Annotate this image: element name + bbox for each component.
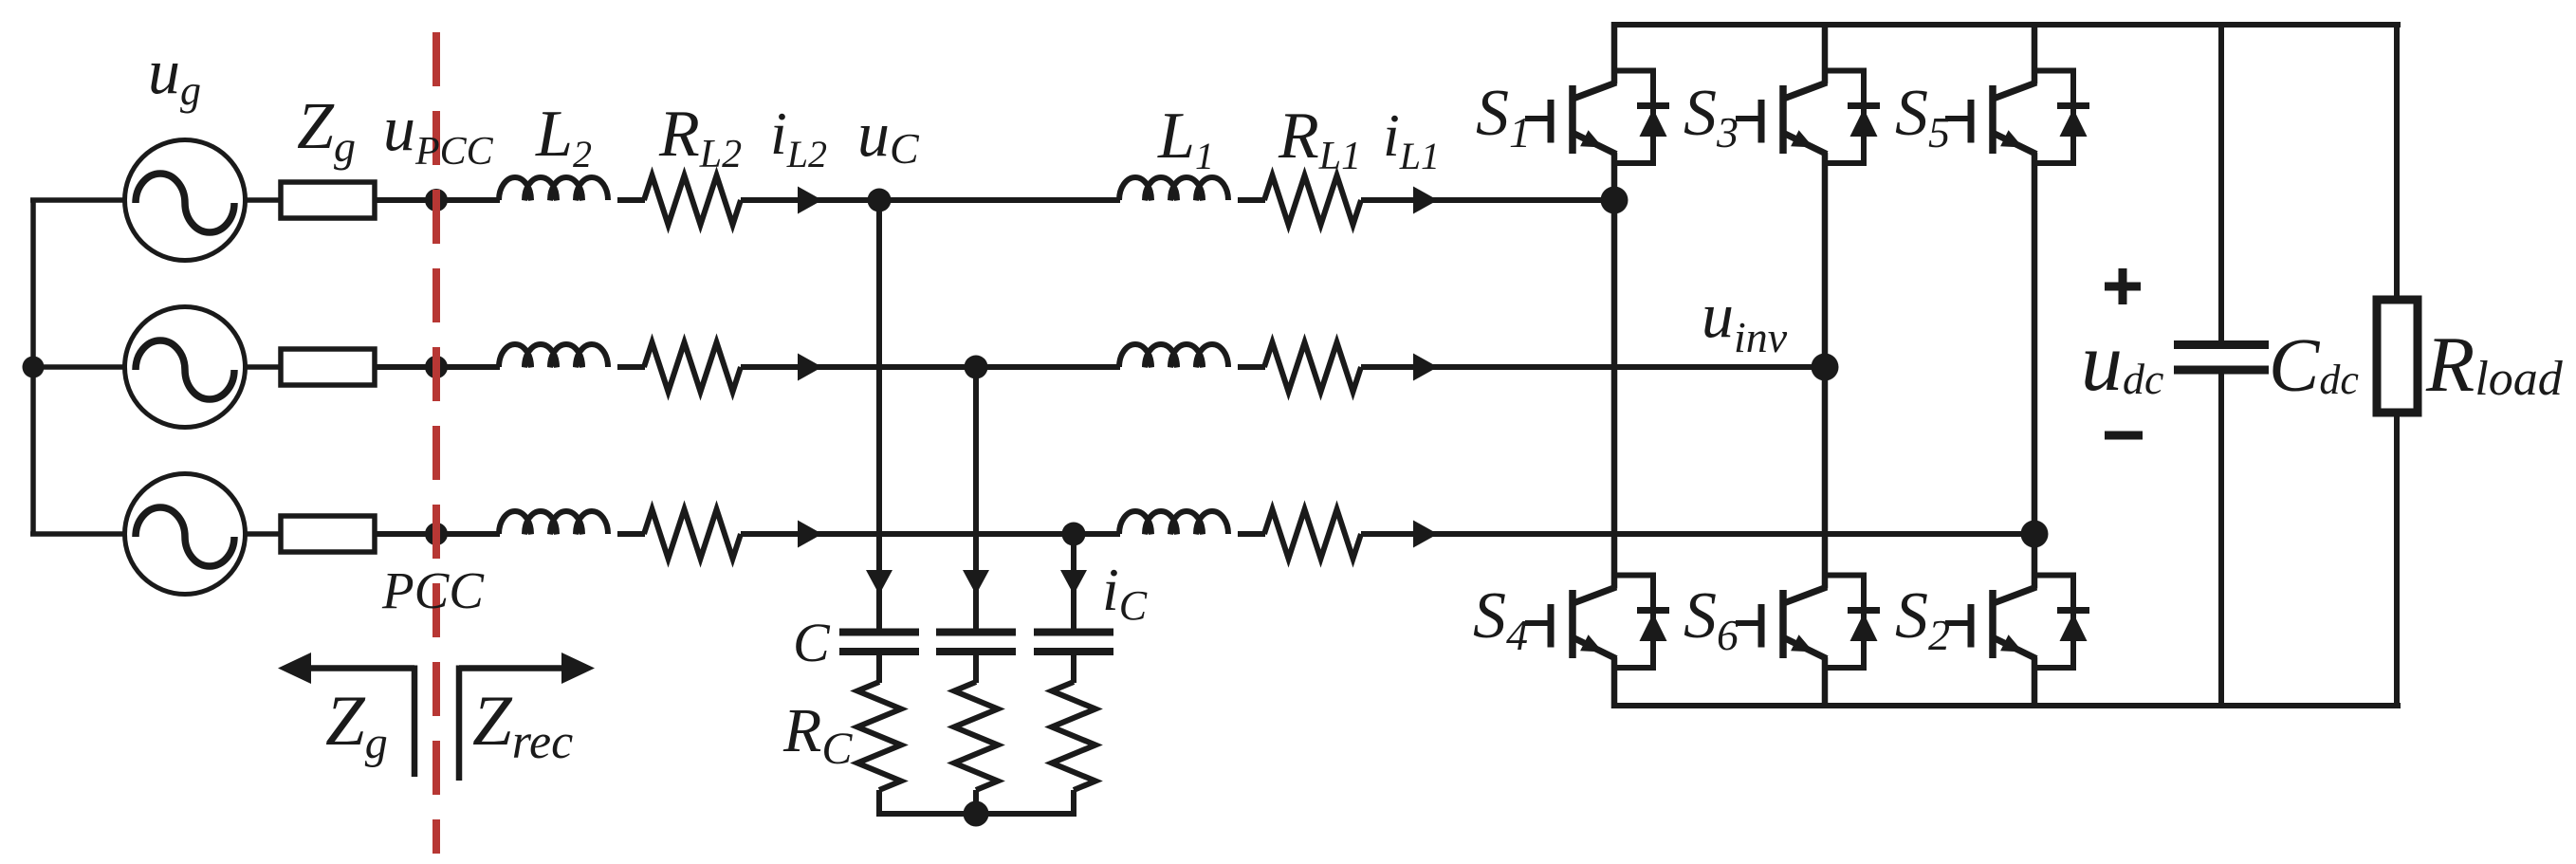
wire L2 to RL2 phase a [617, 197, 645, 203]
wire RL1 to bridge phase c [1361, 531, 2034, 537]
wire RL2 to uC phase a [741, 197, 881, 203]
wire RL2 to node phase c [741, 531, 1076, 537]
wire L1 to RL1 phase b [1238, 364, 1265, 370]
wire L1 to RL1 phase c [1238, 531, 1265, 537]
node phase c filter tap [1062, 523, 1086, 546]
arrow iC phase c [1060, 570, 1087, 595]
resistor RL1 phase a [1264, 175, 1361, 225]
impedance Zg box phase c [281, 516, 375, 552]
capacitor C top plate phase c [1034, 629, 1113, 636]
wire L2 to RL2 phase b [617, 364, 645, 370]
resistor RL2 phase b [644, 342, 741, 392]
node phase c to leg 3 [2021, 521, 2049, 548]
capacitor C top plate phase b [936, 629, 1016, 636]
ac source ug phase b [125, 307, 246, 428]
arrow Zrec direction [459, 653, 595, 684]
resistor RL2 phase a [644, 175, 741, 225]
wire inverter leg 1 upper [1611, 22, 1618, 84]
resistor RC phase c [1052, 682, 1095, 790]
inductor L1 phase b [1119, 344, 1228, 367]
wire RC to star rail phase c [1071, 790, 1076, 817]
capacitor C bottom plate phase b [936, 648, 1016, 655]
wire RC to star rail phase b [973, 790, 979, 817]
wire capacitor to RC phase c [1071, 652, 1076, 683]
node uinv leg 2 [1812, 354, 1839, 381]
arrow iL2 phase c [798, 521, 822, 548]
wire capacitor branch down phase c [1071, 534, 1076, 629]
ac source ug phase c [125, 474, 246, 595]
capacitor C top plate phase a [839, 629, 919, 636]
capacitor Cdc bottom plate [2174, 366, 2269, 375]
wire capacitor branch down phase b [973, 367, 979, 629]
wire source b to Zg [245, 364, 281, 370]
wire rail to source c [30, 531, 125, 537]
arrow iL2 phase b [798, 354, 822, 381]
node PCC phase b [425, 356, 448, 378]
wire inverter leg 2 upper [1822, 22, 1829, 84]
resistor RL1 phase b [1264, 342, 1361, 392]
wire dc bottom bus [1611, 703, 2401, 708]
wire inverter leg 1 lower [1611, 657, 1618, 708]
transistor S2 [1945, 573, 2089, 671]
wire rail to source a [30, 197, 125, 203]
resistor RC phase b [954, 682, 998, 790]
arrow iL1 phase c [1413, 521, 1438, 548]
inductor L1 phase a [1119, 177, 1228, 200]
wire capacitor branch down phase a [876, 200, 882, 629]
wire node to L1 phase b [976, 364, 1120, 370]
arrow iL2 phase a [798, 187, 822, 214]
wire inverter leg 3 upper [2032, 22, 2038, 84]
wire inverter leg 3 lower [2032, 657, 2038, 708]
wire source c to Zg [245, 531, 281, 537]
wire Cdc branch upper [2218, 25, 2224, 345]
wire Zg to L2 phase c [375, 531, 500, 537]
inductor L1 phase c [1119, 511, 1228, 534]
wire RL1 to bridge phase b [1361, 364, 1825, 370]
wire inverter leg 1 middle [1611, 153, 1618, 589]
transistor S4 [1525, 573, 1669, 671]
transistor S3 [1736, 68, 1880, 167]
wire capacitor to RC phase a [876, 652, 882, 683]
arrow iL1 phase b [1413, 354, 1438, 381]
node star point [964, 801, 989, 827]
svg-text:PCC: PCC [381, 561, 485, 619]
wire RL2 to node phase b [741, 364, 978, 370]
wire capacitor to RC phase b [973, 652, 979, 683]
ac source ug phase a [125, 140, 246, 261]
wire node to L1 phase c [1074, 531, 1120, 537]
wire star point rail [876, 811, 1076, 817]
wire L2 to RL2 phase c [617, 531, 645, 537]
capacitor Cdc top plate [2174, 340, 2269, 349]
arrow iC phase a [866, 570, 892, 595]
wire Rload branch upper [2394, 25, 2400, 303]
resistor RC phase a [857, 682, 901, 790]
wire left vertical rail [30, 200, 36, 534]
inductor L2 phase b [499, 344, 608, 367]
PCC boundary dashed line [432, 32, 440, 854]
wire Zg to L2 phase b [375, 364, 500, 370]
resistor RL2 phase c [644, 509, 741, 559]
wire Cdc branch lower [2218, 370, 2224, 706]
minus sign dc link [2105, 432, 2143, 440]
resistor Rload box [2377, 300, 2418, 413]
arrow iC phase b [963, 570, 989, 595]
wire uC to L1 phase a [879, 197, 1120, 203]
wire inverter leg 2 middle [1822, 153, 1829, 589]
node phase a to leg 1 [1601, 187, 1628, 214]
node left rail junction [23, 357, 45, 378]
inductor L2 phase a [499, 177, 608, 200]
resistor RL1 phase c [1264, 509, 1361, 559]
node uC phase a [868, 189, 892, 212]
inductor L2 phase c [499, 511, 608, 534]
wire dc top bus [1611, 22, 2401, 28]
wire Zg bracket vertical [412, 666, 418, 778]
node PCC phase a [425, 189, 448, 211]
plus sign dc link [2105, 268, 2141, 304]
transistor S1 [1525, 68, 1669, 167]
wire Rload branch lower [2394, 413, 2400, 706]
wire source a to Zg [245, 197, 281, 203]
wire rail to source b [30, 364, 125, 370]
wire Zg to L2 phase a [375, 197, 500, 203]
capacitor C bottom plate phase a [839, 648, 919, 655]
wire RC to star rail phase a [876, 790, 882, 817]
wire RL1 to bridge phase a [1361, 197, 1614, 203]
transistor S6 [1736, 573, 1880, 671]
wire inverter leg 2 lower [1822, 657, 1829, 708]
node phase b filter tap [965, 356, 988, 379]
arrow Zg direction [278, 653, 414, 684]
impedance Zg box phase b [281, 349, 375, 385]
svg-text:C: C [793, 612, 831, 673]
wire L1 to RL1 phase a [1238, 197, 1265, 203]
wire Zrec bracket vertical [456, 666, 463, 781]
node PCC phase c [425, 523, 448, 545]
impedance Zg box phase a [281, 182, 375, 218]
arrow iL1 phase a [1413, 187, 1438, 214]
transistor S5 [1945, 68, 2089, 167]
capacitor C bottom plate phase c [1034, 648, 1113, 655]
wire inverter leg 3 middle [2032, 153, 2038, 589]
